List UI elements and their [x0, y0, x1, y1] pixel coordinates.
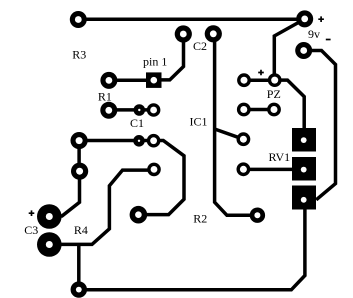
svg-text:R1: R1: [98, 89, 112, 103]
svg-text:9v: 9v: [308, 27, 320, 41]
svg-text:C1: C1: [130, 116, 144, 130]
svg-text:PZ: PZ: [267, 87, 281, 101]
svg-text:RV1: RV1: [268, 150, 290, 164]
svg-text:R2: R2: [193, 211, 207, 225]
svg-text:pin 1: pin 1: [143, 55, 167, 69]
svg-text:R3: R3: [72, 48, 86, 62]
svg-text:R4: R4: [74, 223, 88, 237]
svg-text:C2: C2: [193, 39, 207, 53]
svg-text:C3: C3: [24, 223, 38, 237]
svg-text:IC1: IC1: [190, 115, 208, 129]
